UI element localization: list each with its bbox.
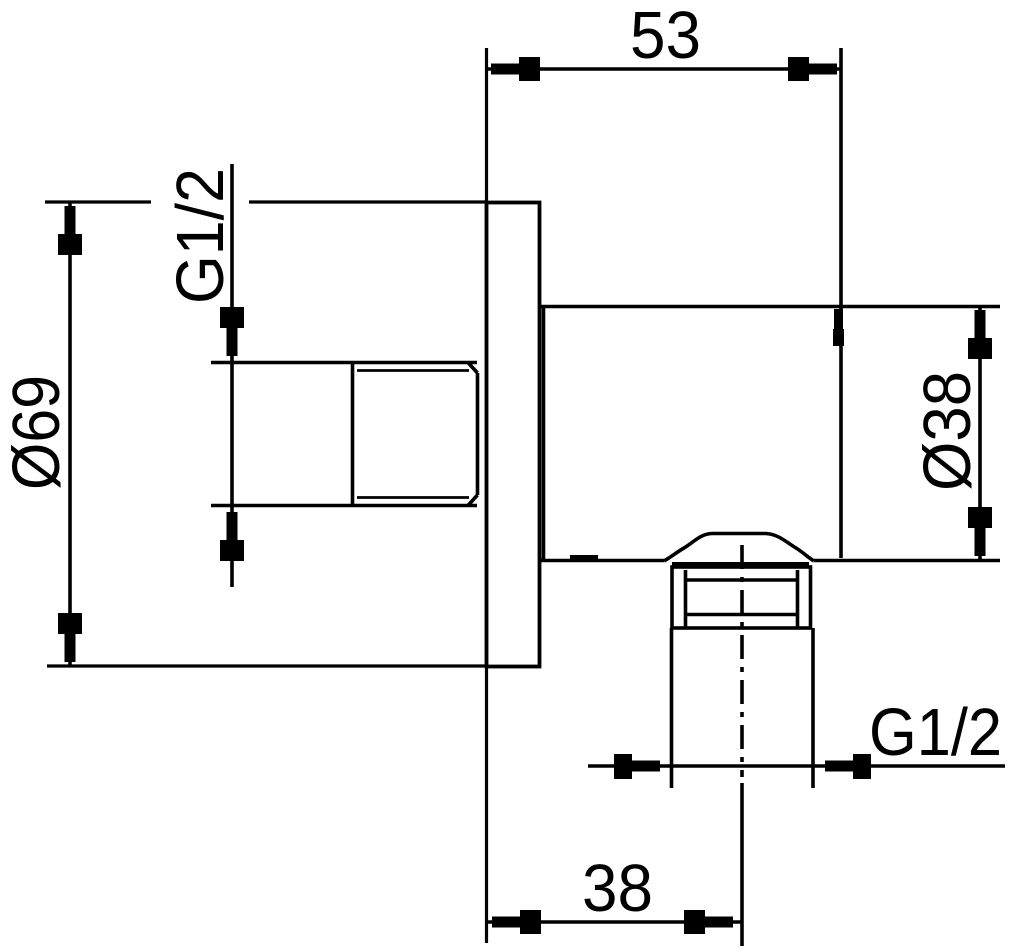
svg-text:Ø69: Ø69 [0,375,74,490]
svg-text:Ø38: Ø38 [910,371,985,491]
hose nipple right edge [811,628,815,788]
nut inner right line [796,570,800,627]
body right edge + 53 extension line [839,48,843,558]
thread end face [476,373,480,495]
wall thread major diameter bottom line [211,504,477,508]
arrowhead 53 left [491,64,519,75]
dome base thick band [672,562,809,568]
arrowhead G1/2 outlet right [825,761,853,772]
G1/2 outlet dimension line [588,764,1005,768]
arrowhead &#216;38 bottom [975,528,986,556]
hose nut outer outline [672,567,811,628]
outlet dome [664,534,814,562]
dimension line 53 [487,67,841,71]
left extension line (wall face, 53 dim top / 38 dim bottom) [485,48,488,943]
arrowhead 53 right [809,64,837,75]
svg-text:38: 38 [582,851,653,926]
arrowhead G1/2 thread top [227,328,238,356]
small arrowhead at body right edge [834,309,843,331]
arrowhead G1/2 thread bottom [227,512,238,540]
detent bump on body bottom edge [570,555,598,561]
dimension line 38 [487,920,742,924]
shank/thread boundary [351,362,355,506]
svg-text:53: 53 [630,0,701,73]
thread end chamfer bottom [468,495,478,506]
body top edge + Ø38 top extension line [540,305,1000,309]
centerline of outlet (lower solid part) [740,783,744,946]
G1/2 thread dimension line [230,164,234,587]
hose nipple left edge [670,628,674,788]
body left edge [542,307,546,560]
wall plate (escutcheon side view) [487,203,540,667]
Ø38 dimension line [978,306,982,560]
arrowhead &#216;38 top [975,310,986,338]
centerline of outlet (dash-dot part) [740,545,744,777]
svg-text:G1/2: G1/2 [163,168,238,304]
arrowhead &#216;69 bottom [65,634,76,662]
thread root top line [357,369,469,372]
nut inner bottom line [685,613,798,617]
body bottom edge left segment [540,559,664,563]
body bottom edge right segment + Ø38 bottom extension [814,559,1000,563]
arrowhead 38 right [705,917,733,928]
Ø69 bottom extension line [47,664,487,667]
arrowhead G1/2 outlet left [632,761,660,772]
nut inner top line [685,578,798,582]
arrowhead &#216;69 top [65,206,76,234]
thread end chamfer top [468,363,478,374]
Ø69 top extension line (broken around G1/2 text) [45,200,151,203]
thread root bottom line [357,496,469,499]
arrowhead 38 left [492,917,520,928]
Ø69 dimension line [68,202,72,666]
wall thread major diameter top line [211,361,477,365]
nut inner left line [684,570,688,627]
svg-text:G1/2: G1/2 [869,695,1002,770]
